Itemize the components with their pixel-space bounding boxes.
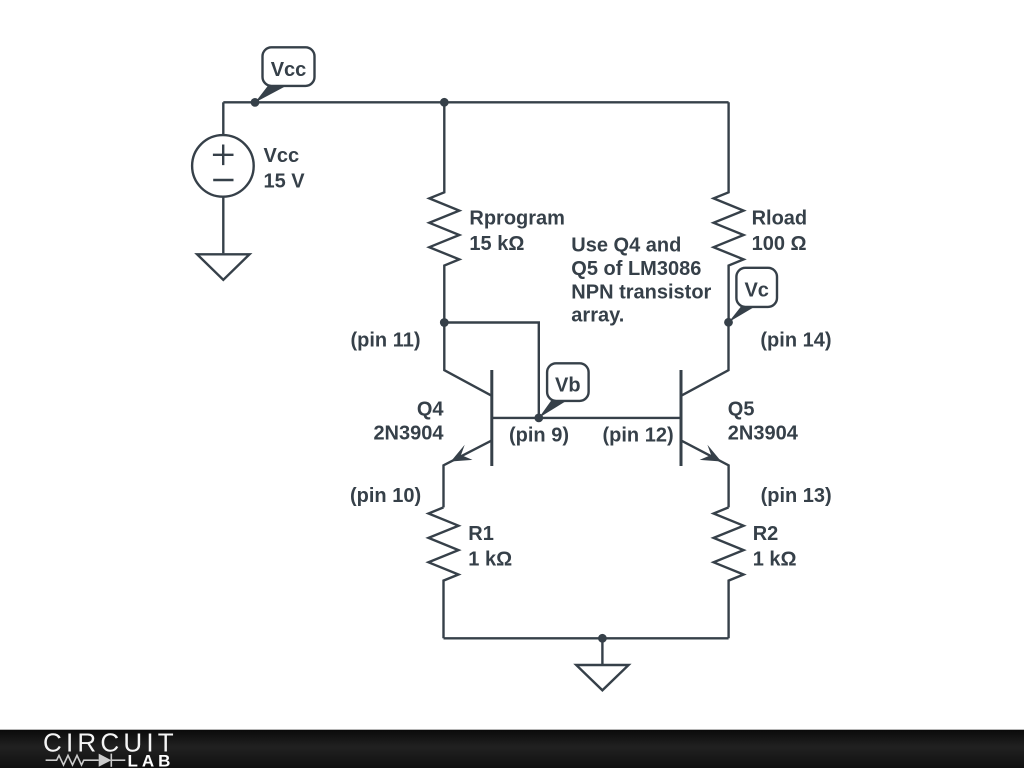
svg-text:R1: R1 — [468, 523, 494, 545]
svg-text:(pin 9): (pin 9) — [509, 424, 569, 446]
svg-text:Vc: Vc — [744, 280, 768, 302]
svg-text:Q4: Q4 — [417, 399, 445, 421]
transistor Q5 emitter — [681, 440, 729, 507]
svg-text:Rprogram: Rprogram — [469, 207, 565, 229]
transistor Q4 emitter — [444, 440, 492, 507]
arrowhead Q4 emitter — [451, 445, 473, 462]
svg-text:1 kΩ: 1 kΩ — [468, 548, 512, 570]
voltage source plus sign — [213, 145, 234, 166]
wire ground stub — [601, 638, 603, 664]
label R1 1 kOhm — [468, 523, 512, 571]
svg-text:(pin 12): (pin 12) — [603, 424, 674, 446]
svg-text:(pin 10): (pin 10) — [350, 485, 421, 507]
node Vb dot — [534, 414, 543, 423]
node dot Rprogram bottom — [440, 318, 449, 327]
svg-text:NPN transistor: NPN transistor — [571, 281, 711, 303]
svg-text:Vcc: Vcc — [264, 145, 300, 167]
label Rload 100 Ohm — [752, 207, 808, 255]
voltage source minus sign — [213, 179, 233, 181]
resistor R1 — [429, 507, 459, 638]
node Vcc dot — [251, 98, 260, 107]
svg-text:(pin 11): (pin 11) — [351, 330, 421, 352]
svg-text:Rload: Rload — [752, 207, 808, 229]
note text block — [571, 235, 711, 327]
resistor R2 — [714, 507, 744, 638]
wire collector Q4 — [444, 323, 492, 396]
resistor Rload — [714, 102, 744, 322]
svg-text:1 kΩ: 1 kΩ — [753, 548, 797, 570]
voltage source V1 circle — [192, 135, 254, 197]
svg-text:R2: R2 — [753, 523, 779, 545]
Vcc callout — [255, 47, 315, 102]
ground symbol left — [197, 254, 249, 279]
svg-text:100 Ω: 100 Ω — [752, 233, 807, 255]
wire Vcc source top lead — [222, 102, 224, 135]
svg-text:15 V: 15 V — [264, 170, 306, 192]
logo diode triangle — [99, 754, 112, 767]
node Vc dot — [724, 318, 733, 327]
svg-text:2N3904: 2N3904 — [373, 423, 444, 445]
svg-text:Vcc: Vcc — [271, 59, 307, 81]
svg-text:(pin 13): (pin 13) — [761, 485, 832, 507]
wire source bottom lead — [222, 197, 224, 254]
label V1 Vcc 15 V — [264, 145, 306, 193]
ground symbol center — [576, 665, 628, 690]
label Q4 2N3904 — [373, 399, 444, 445]
transistor Q4 base bar — [490, 370, 493, 466]
svg-text:Vb: Vb — [555, 374, 581, 396]
arrowhead Q5 emitter — [700, 445, 722, 462]
svg-text:(pin 14): (pin 14) — [760, 330, 831, 352]
resistor Rprogram — [429, 102, 459, 322]
label Rprogram 15 kOhm — [469, 207, 565, 255]
wire bottom rail — [444, 637, 729, 639]
Vc callout — [729, 268, 778, 323]
footer bar — [0, 730, 1024, 768]
label R2 1 kOhm — [753, 523, 797, 571]
svg-text:2N3904: 2N3904 — [728, 423, 799, 445]
node ground dot — [598, 634, 607, 643]
transistor Q5 base bar — [680, 370, 683, 466]
svg-text:15 kΩ: 15 kΩ — [469, 233, 524, 255]
wire top rail — [223, 101, 728, 103]
wire collector Q5 — [681, 322, 729, 396]
junction dot top — [440, 98, 449, 107]
Vb callout — [539, 363, 589, 418]
svg-text:Q5: Q5 — [728, 399, 755, 421]
label Q5 2N3904 — [728, 399, 799, 445]
svg-text:Use Q4 and: Use Q4 and — [571, 235, 681, 257]
logo resistor diode line — [46, 754, 126, 767]
svg-text:array.: array. — [571, 305, 624, 327]
svg-text:Q5 of LM3086: Q5 of LM3086 — [571, 258, 701, 280]
svg-text:LAB: LAB — [128, 751, 175, 768]
wire base rail — [492, 417, 681, 419]
wire base link — [444, 323, 539, 418]
